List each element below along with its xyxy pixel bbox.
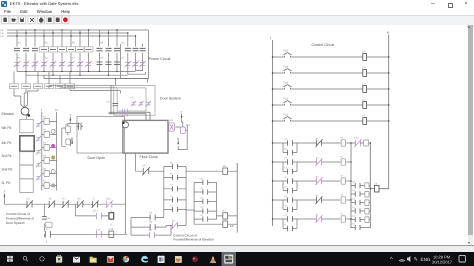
breaker box contacts group2 [40,47,94,52]
contact B5 [316,139,323,147]
K6 rung [136,170,164,172]
svg-text:T1: T1 [44,228,48,231]
title bar [0,0,474,9]
bus L3 [7,35,136,37]
search [23,256,28,261]
svg-text:K1: K1 [341,213,344,216]
SCHEMATIC [1,29,149,79]
floor lamp row2 [51,130,55,134]
svg-text:T1: T1 [92,197,96,200]
gmail [107,256,114,263]
coil K9r [223,221,228,227]
svg-text:K6: K6 [49,197,53,200]
elevator ladder rung2 C4/K4 [273,162,352,172]
svg-text:^: ^ [390,256,393,263]
K10 top wires [351,142,370,144]
svg-text:a19: a19 [169,119,174,122]
svg-text:e5: e5 [121,57,124,60]
contact K9c [150,215,155,221]
photos app [158,256,165,263]
wire columns group3 [71,30,89,75]
floor lamp row6 [51,184,55,188]
rung PB4-C4 [273,72,389,74]
floor lamp row5 [51,170,55,174]
right stack rows [351,186,370,228]
window controls [428,0,438,8]
svg-text:PB1: PB1 [283,114,288,117]
svg-text:PB4: PB4 [283,66,288,69]
N arrow left [71,140,73,144]
cortana [40,257,44,261]
svg-text:P.DO: P.DO [106,101,111,104]
wifi [399,260,405,261]
svg-text:K8: K8 [223,165,227,168]
svg-text:K8: K8 [149,221,153,224]
coil C1 [363,118,367,125]
coil C3 [363,86,367,93]
svg-text:2: 2 [46,240,48,244]
coil K8 [223,168,228,174]
wire columns group1 [17,30,35,75]
svg-text:C3: C3 [284,176,288,179]
contact B4 magenta [316,158,323,166]
rung PB1-C1 [273,120,389,122]
rail T [41,112,43,191]
coil K4 [341,159,345,165]
svg-text:C3: C3 [200,187,204,190]
T arrow ladder left [3,194,5,198]
svg-text:PB3: PB3 [283,82,288,85]
elevator ladder rung5 C1/K1 [273,219,352,229]
group4 secondary contacts [97,62,121,65]
svg-text:K3: K3 [341,175,344,178]
rung5 labels [284,213,319,226]
svg-text:N: N [55,108,57,112]
svg-text:2nd Flr.: 2nd Flr. [2,168,14,172]
stack B frame [194,182,216,224]
wires to door system [14,85,120,107]
elevator shaft box 3rd [20,151,33,165]
svg-text:A5: A5 [121,42,125,45]
chrome [123,256,129,262]
elevator shaft box 2nd [20,165,33,179]
svg-text:B1: B1 [43,179,47,182]
collector wires [14,71,136,96]
floor labels [2,126,14,185]
svg-text:2: 2 [110,222,112,226]
contact T1m magenta [96,213,101,220]
toolbar buttons [0,15,80,25]
coil C5 [363,54,367,61]
svg-text:Forward/Reverse of: Forward/Reverse of [6,216,34,220]
menu bar [4,9,70,14]
svg-text:K1: K1 [284,223,287,226]
svg-text:K3: K3 [284,185,287,188]
contactor contacts row (main) [14,48,146,51]
pushbutton PB2 [284,101,292,105]
door system inner loop [117,88,146,111]
svg-text:C6: C6 [374,182,378,185]
pushbutton PB1 [284,117,292,121]
svg-text:B2: B2 [43,167,47,170]
fuse boxes row [9,84,74,89]
svg-text:K12: K12 [46,217,51,220]
rung PB5-C5 [273,56,389,58]
svg-text:K3: K3 [149,229,153,232]
elevator shaft box 5th [20,119,33,133]
stack A frame [164,167,186,226]
floor relay coils [44,119,49,189]
floor switch ticks magenta [36,122,41,181]
door open box [77,117,125,154]
svg-text:C5: C5 [284,138,288,141]
svg-text:C2: C2 [200,196,204,199]
door motor dot [122,122,124,124]
coil K10r [364,140,369,146]
svg-text:e3: e3 [72,57,75,60]
svg-text:K5: K5 [43,115,47,118]
elevator ladder rung3 C3/K3 [273,181,352,191]
a5 wires [62,122,80,147]
contact K7a [62,200,69,208]
svg-text:T: T [269,36,271,40]
svg-text:K6: K6 [142,165,146,168]
junction dots [16,29,136,79]
K7 rung [217,215,238,217]
door ladder risers [44,153,127,237]
K9 rung [194,223,237,225]
contactor A5 loop wires [121,30,149,79]
rung1 contacts [288,140,293,155]
powerpoint-ish [175,256,182,263]
svg-text:Door System: Door System [6,221,25,225]
svg-text:A2: A2 [45,42,49,45]
contact K12m magenta [96,231,101,238]
door wire drops magenta [122,109,127,117]
pushbutton PB4 [284,69,292,73]
svg-text:Door Open: Door Open [88,156,106,160]
coil K3 [341,178,345,184]
contact K3c magenta [150,232,155,238]
contact B2 [316,196,323,204]
stack A labels [170,161,173,207]
svg-text:N: N [387,31,389,35]
svg-text:Door System: Door System [160,96,181,100]
svg-text:L3: L3 [1,35,4,38]
mail [73,257,80,263]
contact K9a [77,200,84,208]
left feeder rows [131,218,186,236]
stack A rows [164,167,186,210]
a6 coil lower [66,139,71,145]
wire columns group4 [100,30,118,75]
toolbar strip [0,15,474,27]
motor shaft dot [27,114,30,117]
svg-text:C1: C1 [362,114,366,117]
coil C2 [363,102,367,109]
fc riser [135,153,137,171]
contact B1r magenta [316,215,323,223]
rung4 contacts [288,197,293,212]
floor coil labels [43,115,47,182]
svg-text:C2: C2 [362,98,366,101]
rung2 labels [284,156,319,169]
wire columns group2 [44,30,62,75]
contact T1a [92,200,99,208]
svg-text:K9: K9 [149,212,153,215]
thermal overload row [14,61,146,67]
rail T main [272,40,274,226]
rung PB2-C2 [273,104,389,106]
svg-text:K9: K9 [77,197,81,200]
rung4 labels [284,194,319,207]
svg-text:KT1: KT1 [131,97,136,100]
door limit contact [113,104,119,106]
coil C4 [363,70,367,77]
svg-text:K2: K2 [341,194,344,197]
stack B labels [200,177,204,217]
svg-text:C4: C4 [362,66,366,69]
timer box [46,222,52,227]
mid rail [350,143,352,228]
stack A contacts [173,164,178,212]
door system bottom wires [109,85,151,120]
svg-text:D1: D1 [27,197,31,200]
svg-text:4th Flr.: 4th Flr. [2,141,13,145]
svg-text:T: T [180,110,182,114]
pushbutton PB3 [284,85,292,89]
contactor ref labels [18,42,125,60]
door system outer loop [114,85,155,115]
contact K6b [142,167,150,175]
rail N main [388,35,390,189]
K10 coil magenta [180,127,185,133]
rung1 labels [284,137,319,150]
app icon [1,1,7,7]
label elevator control text [173,234,215,242]
contact D1 [26,200,33,208]
svg-text:K4: K4 [341,156,344,159]
svg-text:G. Flr.: G. Flr. [2,181,12,185]
right rail mid [236,163,238,233]
svg-text:C2: C2 [284,195,288,198]
coil T1 [109,213,114,219]
indicator rungs [42,122,57,186]
svg-text:B4: B4 [43,141,47,144]
svg-text:T: T [41,108,43,112]
coil K7 [223,213,228,219]
svg-text:✎: ✎ [414,257,419,263]
svg-text:C3: C3 [362,82,366,85]
svg-text:A1: A1 [18,42,22,45]
contact K6a [48,200,55,208]
svg-text:K7: K7 [223,210,227,213]
K10 contact magenta [354,139,361,147]
svg-text:K2: K2 [284,204,287,207]
svg-text:K10: K10 [186,124,191,127]
svg-text:K4: K4 [284,166,287,169]
svg-text:e4: e4 [100,57,103,60]
vertical scrollbar [468,25,473,245]
svg-text:C1: C1 [284,214,288,217]
svg-text:PB5: PB5 [283,50,288,53]
taskbar [0,252,474,266]
contact K11 magenta [106,200,113,208]
svg-text:T: T [69,113,71,117]
N arrow right [177,141,179,145]
elevator ladder rung1 C5/K5 [273,143,352,153]
contact B3 magenta [316,177,323,185]
svg-text:A4: A4 [100,42,104,45]
svg-text:N: N [177,137,179,141]
svg-text:J4T1: J4T1 [93,209,99,212]
svg-text:3rd Flr.: 3rd Flr. [2,154,13,158]
svg-text:K5: K5 [341,137,344,140]
collector junction dots [25,71,117,76]
ladder rail dots [272,142,371,219]
right return rail [369,143,371,228]
N rail bend [370,188,388,190]
svg-text:Forward/Reverse of Elevator: Forward/Reverse of Elevator [173,237,215,241]
svg-text:K12: K12 [109,228,114,231]
svg-text:N: N [71,136,73,140]
svg-text:Elevator: Elevator [2,112,16,116]
rung2 contacts [288,159,293,174]
top link rung [186,170,237,172]
pushbutton PB5 [284,53,292,57]
rung3 contacts [288,178,293,193]
elevator shaft box G [20,179,33,193]
loop bottoms [121,71,149,79]
dark red sphere [192,256,198,262]
RST wire labels [74,83,76,91]
K9 door coil magenta [169,123,175,131]
door system feed wire [44,75,148,85]
svg-text:e2: e2 [45,57,48,60]
right stack labels [352,180,356,225]
explorer folder [90,257,97,263]
coil K2 [341,197,345,203]
K12m wires [95,233,109,235]
svg-text:5th Flr.: 5th Flr. [2,126,13,130]
store [56,255,62,262]
K10 wires [175,118,187,149]
coil K5 [341,140,345,146]
svg-text:C4: C4 [284,157,288,160]
svg-text:K5: K5 [284,147,287,150]
svg-text:A3: A3 [72,42,76,45]
active app button [222,252,237,266]
rung5 contacts [288,216,293,231]
rung PB3-C3 [273,88,389,90]
door ladder rung [4,198,125,204]
floor lamp row3 magenta [51,144,55,148]
svg-text:Floor Close: Floor Close [140,155,158,159]
coil K1 [341,216,345,222]
floor close box [123,120,168,153]
title text [10,1,78,6]
svg-text:B5: B5 [43,128,47,131]
T arrow left [69,117,71,122]
svg-text:ENG: ENG [421,257,431,262]
svg-text:K7: K7 [63,197,67,200]
svg-text:e1: e1 [18,57,21,60]
svg-text:C1: C1 [200,206,204,209]
rung3 labels [284,175,319,188]
door motor [123,122,129,128]
door open contact [77,123,84,131]
speaker [407,256,410,262]
bus L2 [7,32,128,34]
contact K12v [42,217,47,220]
door contacts magenta [131,101,151,106]
a5 coil [65,126,70,133]
shaft feed wire [25,115,27,119]
svg-text:K11: K11 [106,197,111,200]
edge [141,256,148,263]
svg-text:C5: C5 [362,50,366,53]
motor M elevator [21,107,29,115]
stack B rows [194,182,216,219]
contact T1v [45,231,50,238]
elevator ladder rung4 C2/K2 [273,200,352,210]
drops to fuse row [14,72,70,97]
rail N [56,112,58,191]
svg-text:B1: B1 [172,220,176,223]
label door control text [6,212,34,225]
start button [7,256,13,262]
horizontal scrollbar strip [0,245,474,253]
bus labels [1,29,4,38]
svg-text:30/12/2017: 30/12/2017 [432,260,453,265]
notification [459,256,465,262]
svg-text:K10: K10 [354,137,359,140]
contact K8c [150,224,155,230]
contact B1m magenta [171,222,178,230]
T arrow right [181,114,183,119]
floor lamp row4 [51,156,55,160]
stack B contacts [203,180,208,222]
coil C6n [375,185,380,192]
right stack coils [365,183,369,223]
bus L1 [7,29,148,31]
svg-text:Power Circuit: Power Circuit [149,57,170,61]
svg-text:PB2: PB2 [283,98,288,101]
coil K12 [109,231,114,237]
svg-text:B3: B3 [43,154,47,157]
rail junction dots [272,56,390,121]
vlc cone [210,256,216,263]
svg-text:K9: K9 [230,224,234,228]
svg-text:Control Circuit of: Control Circuit of [6,212,30,216]
motor feed step wires [14,91,38,105]
stacks link [186,209,194,211]
right stack contacts [355,183,360,230]
svg-text:T: T [3,190,5,194]
elevator shaft box 4th (selected) [20,136,34,152]
svg-text:Control Circuit: Control Circuit [312,43,335,47]
